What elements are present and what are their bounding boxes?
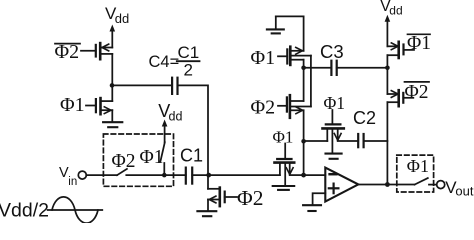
- power Vdd arrow (left): [110, 25, 116, 48]
- svg-text:C1: C1: [180, 146, 203, 166]
- wire C2 right to output rail: [364, 140, 388, 142]
- dashed box (input level-shift switches): [103, 134, 173, 186]
- wire C4 left: [112, 84, 172, 86]
- label C4=C1/2: [149, 43, 200, 79]
- svg-text:dd: dd: [115, 11, 129, 26]
- svg-text:2: 2: [184, 60, 193, 79]
- wire C2 branch left: [304, 140, 328, 142]
- node C4 tap (left rail junction): [110, 83, 115, 88]
- svg-text:C3: C3: [320, 41, 344, 62]
- svg-text:Φ2: Φ2: [405, 82, 429, 103]
- op-amp U1: [325, 168, 358, 202]
- transistor M5 (NMOS, gate phi1, cross pair top): [278, 47, 311, 65]
- node C3 / right rail: [385, 66, 390, 71]
- switch phi1 to Vdd (lever + contact): [160, 125, 164, 176]
- wire to op-amp minus input: [304, 174, 326, 176]
- ground (left column): [103, 122, 122, 127]
- node A (C1/C4/shunt junction): [206, 173, 211, 178]
- node C2 branch tap: [301, 139, 306, 144]
- wire C1 to node A: [192, 174, 208, 176]
- terminal Vin: [78, 171, 86, 179]
- label phi2-bar (M9): [405, 82, 430, 103]
- svg-text:Φ2: Φ2: [55, 41, 80, 63]
- wire C3 left: [304, 67, 332, 69]
- svg-text:C4=: C4=: [149, 53, 180, 71]
- label Vdd (left rail): [105, 4, 129, 26]
- wire op-amp plus stub: [313, 193, 326, 204]
- wire node to C1: [164, 174, 186, 176]
- label Vin: [59, 165, 77, 188]
- transistor M1 (PMOS, gate phi2-bar, to Vdd): [81, 43, 112, 59]
- svg-text:Φ2: Φ2: [112, 151, 136, 172]
- ground (top, analog ground): [267, 16, 284, 33]
- wire C4 right, corner down to node A: [178, 85, 209, 175]
- label phi2-bar (M1): [55, 41, 81, 63]
- transistor M9 (PMOS, gate phi2-bar, mirrored): [387, 90, 413, 106]
- switch phi2 (series, lever): [117, 169, 127, 175]
- ground (M4 bulk): [273, 186, 295, 190]
- ground (M3): [197, 211, 216, 216]
- wire M7 to C2: [338, 140, 359, 142]
- svg-text:Φ1: Φ1: [273, 128, 294, 147]
- wire right rail M8 to M9: [386, 55, 388, 94]
- capacitor C4: [172, 78, 177, 94]
- wire node A down to M3: [207, 175, 209, 189]
- svg-text:Vdd/2: Vdd/2: [0, 200, 49, 222]
- wire node A to M4: [208, 174, 280, 176]
- capacitor C3: [331, 61, 336, 75]
- svg-text:dd: dd: [169, 109, 183, 123]
- wire right rail M9 down to output node: [386, 102, 388, 184]
- svg-text:Φ2: Φ2: [251, 97, 276, 119]
- power Vdd arrow (middle): [162, 120, 168, 127]
- label phi1-bar (M8): [407, 33, 431, 54]
- wire minus rail M6 down to op-amp: [303, 110, 305, 175]
- terminal Vout: [437, 181, 445, 189]
- wire rail ground to M5 source: [303, 16, 305, 50]
- input sine waveform: [48, 197, 103, 223]
- wire left rail node to M2: [111, 85, 113, 101]
- svg-text:C2: C2: [353, 108, 376, 128]
- node input switch tap: [162, 173, 167, 178]
- ground (M7 bulk): [326, 154, 342, 159]
- svg-text:Φ1: Φ1: [324, 93, 346, 113]
- wire left rail M1 to node: [111, 54, 113, 86]
- transistor M4 (NMOS series, gate phi1, rotated): [275, 144, 295, 186]
- transistor M2 (NMOS, gate phi1, to ground): [86, 98, 112, 114]
- svg-text:Φ2: Φ2: [237, 186, 263, 210]
- svg-text:Φ1: Φ1: [251, 47, 276, 69]
- label Vdd (right rail): [380, 0, 402, 17]
- node C3 tap: [301, 66, 306, 71]
- node output junction: [385, 182, 390, 187]
- switch phi1 (output, lever): [415, 178, 428, 185]
- transistor M6 (NMOS, gate phi2, cross pair bottom): [278, 95, 311, 118]
- svg-text:dd: dd: [389, 3, 402, 17]
- label Vdd (middle): [158, 101, 182, 123]
- node minus input junction: [301, 173, 306, 178]
- wire bulk tie (pair): [310, 56, 312, 107]
- wire switch to Vout terminal: [429, 184, 437, 186]
- svg-text:C1: C1: [178, 43, 200, 62]
- svg-text:out: out: [455, 183, 473, 198]
- wire Vin to switch phi2: [86, 174, 117, 176]
- wire top jog ground to rail: [276, 15, 304, 17]
- transistor M8 (PMOS, gate phi1-bar, mirrored): [387, 42, 414, 58]
- capacitor C1: [186, 168, 192, 184]
- svg-text:Φ1: Φ1: [60, 94, 85, 116]
- wire M2 source to ground: [111, 110, 113, 121]
- wire M4 to minus node: [290, 174, 304, 176]
- transistor M3 (NMOS shunt, gate phi2, mirrored): [208, 188, 237, 207]
- ground (op-amp plus input): [303, 205, 321, 211]
- wire M3 source to ground: [207, 200, 209, 211]
- svg-text:Φ1: Φ1: [407, 33, 431, 54]
- transistor M7 (NMOS series to C2, gate phi1, rotated): [323, 110, 344, 153]
- svg-text:in: in: [68, 176, 77, 188]
- wire switch to node: [126, 174, 164, 176]
- wire M5 drain down to M6: [303, 60, 305, 101]
- svg-text:Φ1: Φ1: [407, 156, 429, 176]
- capacitor C2: [358, 134, 363, 147]
- dashed box (output sampling switch): [397, 155, 434, 192]
- label Vout: [445, 178, 474, 198]
- wire C3 right to Vdd rail: [337, 67, 388, 69]
- wire output to switch: [358, 184, 414, 186]
- svg-text:Φ1: Φ1: [140, 147, 164, 168]
- power Vdd arrow (right): [385, 15, 391, 47]
